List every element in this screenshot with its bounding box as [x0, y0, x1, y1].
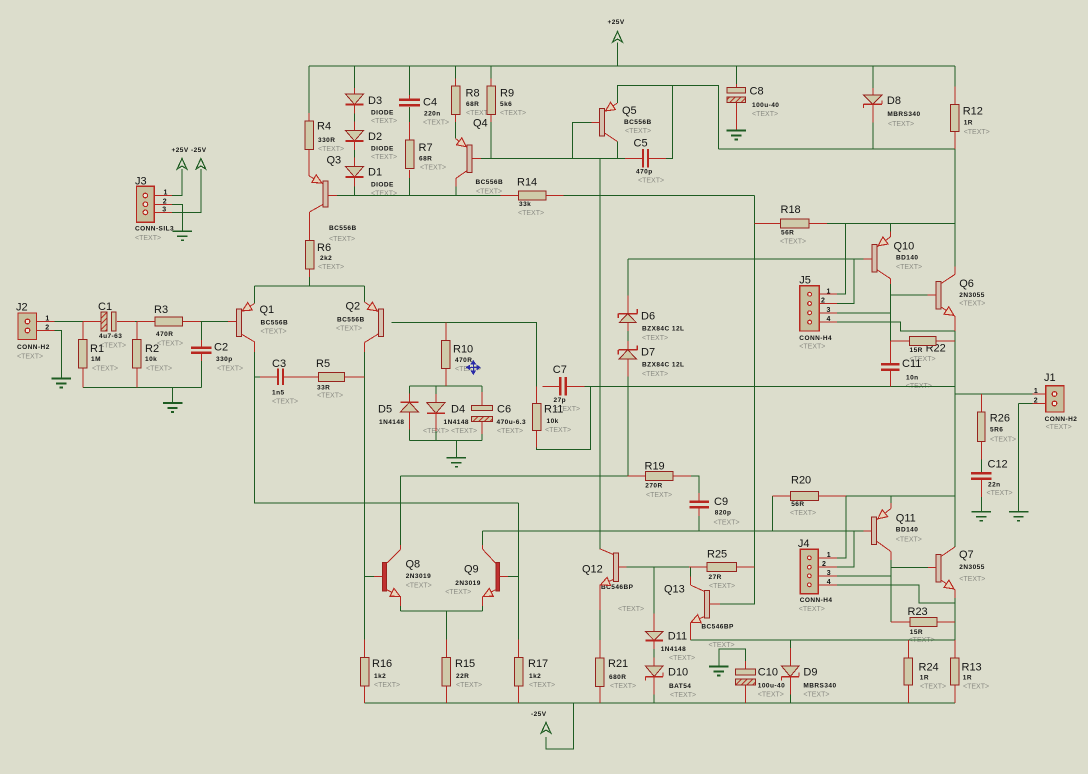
svg-text:<TEXT>: <TEXT>	[451, 428, 477, 435]
svg-text:22n: 22n	[988, 482, 1001, 489]
svg-text:<TEXT>: <TEXT>	[497, 428, 523, 435]
svg-text:C12: C12	[988, 459, 1008, 471]
pins R2	[136, 322, 138, 388]
svg-text:<TEXT>: <TEXT>	[625, 128, 651, 135]
svg-text:22R: 22R	[456, 673, 469, 680]
svg-text:<TEXT>: <TEXT>	[803, 691, 829, 698]
svg-text:1N4148: 1N4148	[444, 419, 469, 426]
svg-text:D5: D5	[378, 404, 392, 416]
svg-text:Q11: Q11	[896, 513, 916, 525]
wire R14 to bias corner	[564, 194, 755, 196]
svg-text:R24: R24	[919, 662, 939, 674]
resistor R12	[951, 104, 960, 131]
wire Q7 emitter drop	[954, 598, 956, 640]
wire node OUT top	[718, 148, 954, 150]
svg-text:<TEXT>: <TEXT>	[990, 436, 1016, 443]
svg-text:CONN-H2: CONN-H2	[17, 344, 50, 351]
capacitor C2	[191, 348, 212, 353]
svg-text:15R: 15R	[910, 347, 923, 354]
svg-text:C9: C9	[714, 496, 728, 508]
svg-text:5k6: 5k6	[500, 101, 512, 108]
wire rail to R9	[490, 66, 492, 79]
wire Q8 base tick	[365, 576, 375, 578]
transistor Q9	[481, 545, 508, 606]
svg-text:<TEXT>: <TEXT>	[669, 655, 695, 662]
pins R10	[445, 323, 447, 387]
svg-text:68R: 68R	[466, 101, 479, 108]
svg-text:R16: R16	[372, 658, 392, 670]
svg-text:BC556B: BC556B	[337, 316, 365, 323]
svg-text:Q5: Q5	[622, 105, 637, 117]
pins C10	[744, 661, 746, 703]
svg-text:<TEXT>: <TEXT>	[709, 642, 735, 649]
svg-text:2k2: 2k2	[320, 255, 332, 262]
pins R3	[137, 321, 201, 323]
svg-text:Q6: Q6	[959, 278, 974, 290]
svg-text:<TEXT>: <TEXT>	[642, 371, 668, 378]
svg-text:<TEXT>: <TEXT>	[406, 582, 432, 589]
pins D8	[872, 88, 874, 123]
svg-text:C8: C8	[750, 86, 764, 98]
pins R24	[907, 640, 909, 703]
wire D10 stub	[653, 695, 655, 703]
wire driver bias bottom	[772, 496, 774, 531]
svg-text:BC556B: BC556B	[261, 319, 289, 326]
svg-text:R12: R12	[963, 106, 983, 118]
pins D3 chain	[354, 88, 356, 187]
svg-text:1n5: 1n5	[272, 390, 285, 397]
wire C9 drop	[698, 516, 700, 531]
resistor R17	[514, 657, 523, 686]
svg-text:<TEXT>: <TEXT>	[799, 343, 825, 350]
svg-text:DIODE: DIODE	[371, 110, 394, 117]
wire input ground rail	[83, 386, 202, 388]
wire R11 loop	[537, 386, 591, 449]
svg-text:470p: 470p	[636, 169, 653, 176]
svg-text:<TEXT>: <TEXT>	[987, 490, 1013, 497]
pins R22	[890, 340, 955, 342]
pins D4	[435, 394, 437, 431]
svg-text:<TEXT>: <TEXT>	[618, 606, 644, 613]
svg-text:2N3055: 2N3055	[959, 564, 984, 571]
svg-text:2N3019: 2N3019	[455, 580, 480, 587]
capacitor C8	[727, 88, 746, 103]
svg-text:Q10: Q10	[894, 241, 915, 253]
transistor Q7	[928, 547, 957, 598]
pins J4	[818, 558, 837, 585]
wire Q11 collector drop	[890, 560, 892, 622]
svg-text:BC556B: BC556B	[624, 119, 652, 126]
pins J1	[1032, 394, 1050, 404]
svg-text:<TEXT>: <TEXT>	[959, 300, 985, 307]
svg-text:BC556B: BC556B	[329, 225, 357, 232]
pins J3	[154, 196, 172, 213]
pins R4	[308, 113, 310, 176]
svg-text:820p: 820p	[715, 510, 732, 517]
wire clamp rail	[409, 385, 482, 387]
svg-text:BC546BP: BC546BP	[701, 624, 734, 631]
pins R23	[891, 621, 955, 623]
ground C10	[709, 667, 729, 676]
wire J3 pin1 to +25V	[172, 169, 182, 196]
wire rail to R12	[954, 66, 956, 86]
svg-text:<TEXT>: <TEXT>	[374, 682, 400, 689]
svg-text:<TEXT>: <TEXT>	[317, 392, 343, 399]
svg-text:<TEXT>: <TEXT>	[909, 637, 935, 644]
svg-text:J4: J4	[798, 538, 810, 550]
svg-text:<TEXT>: <TEXT>	[780, 238, 806, 245]
wire R9 to base net	[490, 122, 492, 158]
wire J4 pin1 riser	[837, 496, 846, 558]
wire D4 stub top	[435, 386, 437, 394]
wire Q2 emitter drop	[364, 286, 366, 302]
resistor R19	[645, 472, 673, 481]
svg-text:J2: J2	[16, 302, 28, 314]
svg-text:R9: R9	[500, 88, 514, 100]
diode D1	[346, 167, 364, 178]
wire Q3 base net	[337, 194, 501, 196]
svg-text:330R: 330R	[318, 137, 335, 144]
ground C8	[727, 131, 747, 140]
svg-text:56R: 56R	[781, 230, 794, 237]
svg-text:R17: R17	[528, 658, 548, 670]
wire D11 D10 gap	[653, 649, 655, 658]
svg-text:Q9: Q9	[464, 564, 479, 576]
svg-text:<TEXT>: <TEXT>	[964, 129, 990, 136]
svg-text:R20: R20	[791, 475, 811, 487]
wire clamp ground rail	[409, 440, 482, 442]
wire J4 pin3 link	[837, 575, 891, 577]
svg-text:<TEXT>: <TEXT>	[500, 110, 526, 117]
wire rail to D8	[872, 66, 874, 88]
wire C10 to ground	[719, 649, 745, 667]
wire Q4 collector drop	[455, 187, 457, 196]
wire R3 to Q1 base	[201, 321, 229, 323]
wire Q13 collector drop	[689, 567, 691, 577]
svg-text:<TEXT>: <TEXT>	[157, 340, 183, 347]
wire D5 stub bottom	[408, 430, 410, 441]
wire C5 right to emitter net	[666, 86, 672, 159]
svg-text:1R: 1R	[920, 675, 929, 682]
wire Q5 emitter net	[617, 86, 718, 149]
svg-text:C10: C10	[758, 667, 778, 679]
svg-text:D6: D6	[641, 311, 655, 323]
svg-text:<TEXT>: <TEXT>	[959, 576, 985, 583]
wire R15 drop	[445, 611, 447, 639]
svg-text:<TEXT>: <TEXT>	[476, 188, 502, 195]
svg-text:R14: R14	[517, 177, 537, 189]
cursor marker	[467, 361, 480, 374]
wire +25V rail	[309, 65, 955, 67]
pins R9	[490, 79, 492, 123]
svg-text:<TEXT>: <TEXT>	[261, 328, 287, 335]
svg-text:CONN-SIL3: CONN-SIL3	[135, 226, 174, 233]
wire R19 to C9	[691, 476, 699, 493]
svg-text:C3: C3	[272, 358, 286, 370]
wire D5 stub top	[408, 386, 410, 394]
pins R13	[954, 640, 956, 703]
diode D8	[864, 95, 883, 108]
resistor R13	[951, 658, 960, 685]
resistor R22	[910, 336, 937, 345]
capacitor C9	[689, 502, 709, 508]
wire clamp ground stub	[455, 441, 457, 458]
wire C12 ground stub	[980, 497, 982, 512]
wire J3 pin2 to ground	[172, 204, 182, 231]
svg-text:<TEXT>: <TEXT>	[1046, 424, 1072, 431]
pins R8	[455, 79, 457, 123]
wire R20 right net	[846, 495, 955, 497]
svg-text:DIODE: DIODE	[371, 182, 394, 189]
svg-text:<TEXT>: <TEXT>	[670, 692, 696, 699]
svg-text:2N3019: 2N3019	[406, 573, 431, 580]
svg-text:<TEXT>: <TEXT>	[610, 683, 636, 690]
wire Q9 base tick	[508, 576, 519, 578]
svg-text:R4: R4	[317, 121, 331, 133]
svg-text:<TEXT>: <TEXT>	[758, 691, 784, 698]
wire Q9 collector riser	[482, 531, 484, 545]
resistor R9	[487, 86, 496, 115]
wire J5 pin3 link	[837, 312, 890, 314]
wire Q11 emitter riser	[890, 496, 892, 503]
resistor R8	[451, 86, 460, 115]
wire Q1 emitter drop	[254, 286, 256, 304]
wire J3 pin3 to -25V	[172, 169, 201, 212]
wire J4 pin4 link	[837, 585, 955, 603]
svg-text:1M: 1M	[91, 356, 101, 363]
wire input ground stub	[172, 387, 174, 403]
wire D9 stub bottom	[789, 695, 791, 703]
wire R8 to Q4	[455, 122, 457, 139]
capacitor C10	[735, 669, 755, 685]
svg-text:D4: D4	[451, 404, 465, 416]
wire Q2 collector line	[364, 352, 366, 639]
pins J5	[819, 294, 837, 322]
svg-text:<TEXT>: <TEXT>	[799, 606, 825, 613]
transistor Q8	[374, 545, 402, 606]
pins C8	[735, 84, 737, 131]
wire bias vertical	[720, 195, 754, 604]
pins R14	[501, 194, 564, 196]
svg-text:BD140: BD140	[896, 255, 918, 262]
svg-text:<TEXT>: <TEXT>	[529, 682, 555, 689]
wire bias node D6	[628, 258, 864, 260]
svg-text:1N4148: 1N4148	[661, 646, 686, 653]
wire Q8 collector riser	[400, 476, 402, 545]
pins R15	[445, 639, 447, 703]
svg-text:C6: C6	[497, 404, 511, 416]
pins Q1 base	[228, 321, 236, 323]
svg-text:C7: C7	[553, 364, 567, 376]
wire C3 left link	[255, 376, 260, 378]
svg-text:D1: D1	[368, 167, 382, 179]
svg-text:1R: 1R	[963, 675, 972, 682]
svg-text:J1: J1	[1044, 372, 1056, 384]
svg-text:R25: R25	[707, 549, 727, 561]
ground J1	[1009, 512, 1029, 521]
svg-text:R8: R8	[466, 88, 480, 100]
wire speaker return	[690, 639, 954, 641]
resistor R26	[978, 412, 986, 442]
transistor Q2	[365, 302, 384, 352]
svg-text:DIODE: DIODE	[371, 146, 394, 153]
capacitor C1	[101, 312, 116, 331]
svg-text:BC556B: BC556B	[476, 179, 504, 186]
svg-text:R1: R1	[90, 343, 104, 355]
capacitor C12	[971, 473, 992, 479]
svg-text:68R: 68R	[419, 156, 432, 163]
svg-text:-25V: -25V	[531, 711, 547, 718]
wire J2 pin2 drop	[55, 331, 62, 379]
pins R11	[536, 386, 538, 447]
pins J2	[37, 322, 55, 331]
wire C2 bottom	[200, 361, 202, 387]
svg-text:D9: D9	[803, 667, 817, 679]
wire rail to R4	[308, 66, 310, 113]
svg-text:-25V: -25V	[191, 147, 207, 154]
svg-text:<TEXT>: <TEXT>	[329, 236, 355, 243]
svg-text:<TEXT>: <TEXT>	[92, 365, 118, 372]
svg-text:D10: D10	[668, 667, 688, 679]
svg-text:CONN-H4: CONN-H4	[799, 335, 832, 342]
resistor R5	[319, 372, 345, 381]
svg-text:<TEXT>: <TEXT>	[646, 492, 672, 499]
capacitor C7	[560, 377, 566, 396]
pins C7	[542, 385, 584, 387]
svg-text:330p: 330p	[216, 356, 233, 363]
svg-text:<TEXT>: <TEXT>	[790, 510, 816, 517]
svg-text:<TEXT>: <TEXT>	[371, 118, 397, 125]
ground J3	[173, 231, 193, 240]
wire D8 bottom	[872, 123, 874, 149]
wire J4 pin2 riser	[837, 531, 854, 567]
pins C5	[625, 157, 666, 159]
resistor R2	[133, 340, 142, 369]
svg-text:<TEXT>: <TEXT>	[888, 121, 914, 128]
svg-text:CONN-H4: CONN-H4	[800, 597, 833, 604]
wire zener gap	[627, 331, 629, 341]
transistor Q3	[309, 175, 337, 212]
wire Q2 base net	[392, 323, 537, 387]
transistor Q10	[864, 232, 891, 285]
svg-text:Q3: Q3	[327, 155, 342, 167]
wire -25V feed	[546, 703, 574, 749]
svg-text:1k2: 1k2	[529, 673, 541, 680]
diode D2	[346, 131, 364, 142]
svg-text:R15: R15	[455, 658, 475, 670]
svg-text:C11: C11	[902, 358, 921, 370]
svg-text:<TEXT>: <TEXT>	[709, 583, 735, 590]
wire Q8 emitter drop	[400, 606, 402, 611]
wire rail to D3	[354, 66, 356, 88]
pins R12	[954, 86, 956, 149]
transistor Q4	[456, 138, 482, 187]
svg-text:C4: C4	[423, 97, 437, 109]
svg-text:R21: R21	[608, 658, 628, 670]
transistor Q11	[864, 503, 891, 560]
pins D11	[653, 614, 655, 649]
wire J5 pin1 riser	[837, 224, 846, 295]
svg-text:100u-40: 100u-40	[752, 102, 779, 109]
resistor R24	[904, 658, 913, 685]
wire D11 drop	[653, 567, 655, 614]
connector J4	[800, 549, 818, 594]
diode D5	[400, 402, 418, 412]
pins R6	[309, 212, 311, 277]
svg-text:<TEXT>: <TEXT>	[642, 335, 668, 342]
power terminal +25V	[613, 32, 623, 43]
wire feedback net	[585, 385, 955, 387]
svg-text:270R: 270R	[645, 483, 662, 490]
pins D5	[408, 394, 410, 430]
svg-text:MBRS340: MBRS340	[887, 111, 920, 118]
resistor R25	[707, 563, 737, 572]
resistor R6	[305, 241, 314, 270]
svg-text:Q8: Q8	[406, 559, 421, 571]
svg-text:<TEXT>: <TEXT>	[135, 235, 161, 242]
svg-text:10k: 10k	[145, 356, 157, 363]
capacitor C3	[278, 369, 283, 386]
resistor R1	[79, 340, 88, 369]
wire Q1 collector line	[255, 352, 519, 503]
svg-text:15R: 15R	[910, 629, 923, 636]
svg-text:R13: R13	[962, 662, 982, 674]
wire diff emitter rail	[255, 285, 365, 287]
svg-text:<TEXT>: <TEXT>	[456, 682, 482, 689]
svg-text:<TEXT>: <TEXT>	[714, 519, 740, 526]
svg-text:Q13: Q13	[664, 584, 685, 596]
resistor R21	[596, 658, 605, 687]
wire driver bias top	[827, 223, 955, 225]
wire R19 net	[401, 475, 628, 477]
wire R6 to emitter rail	[309, 277, 311, 286]
svg-text:R18: R18	[781, 204, 801, 216]
wire J5 pin4 link	[837, 322, 955, 331]
capacitor C11	[881, 364, 900, 370]
svg-text:<TEXT>: <TEXT>	[146, 365, 172, 372]
wire Q12 base net	[626, 566, 689, 568]
diode D7	[618, 345, 637, 359]
diode D4	[427, 403, 445, 414]
svg-text:Q12: Q12	[582, 564, 603, 576]
wire Q6 base link	[890, 294, 927, 296]
svg-text:56R: 56R	[791, 501, 804, 508]
svg-text:C2: C2	[214, 342, 228, 354]
wire VAS line	[599, 158, 601, 549]
connector J2	[18, 313, 37, 340]
power terminal -25V (J3)	[196, 159, 206, 170]
svg-text:D8: D8	[887, 95, 901, 107]
svg-text:R7: R7	[419, 142, 433, 154]
wire Q12 emitter drop	[599, 610, 601, 640]
svg-text:1R: 1R	[964, 120, 973, 127]
pins D9	[789, 648, 791, 695]
wire Q10 collector drop	[889, 284, 891, 341]
svg-text:<TEXT>: <TEXT>	[920, 683, 946, 690]
svg-text:1k2: 1k2	[374, 673, 386, 680]
svg-text:R10: R10	[453, 344, 473, 356]
pins R7	[409, 122, 411, 178]
svg-text:D11: D11	[668, 631, 687, 643]
wire D4 stub bottom	[435, 431, 437, 441]
svg-text:MBRS340: MBRS340	[803, 683, 836, 690]
resistor R15	[442, 657, 451, 686]
connector J1	[1046, 386, 1064, 412]
wire J1 pin1 link	[955, 393, 1033, 395]
wire Q7 base link	[891, 566, 928, 568]
pins R19	[627, 475, 690, 477]
svg-text:R5: R5	[316, 358, 330, 370]
